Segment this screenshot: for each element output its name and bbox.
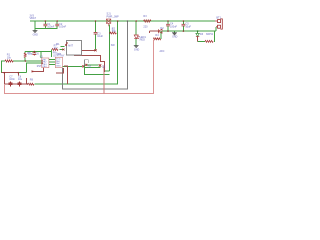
wire stub to ground left xyxy=(35,21,57,29)
wire cap C5 leads xyxy=(182,21,184,24)
pin marks IC left xyxy=(42,60,44,61)
ground GND3 xyxy=(172,33,177,35)
svg-text:GND: GND xyxy=(134,48,140,51)
module M1 gray box xyxy=(66,40,81,55)
wire down to IC top xyxy=(40,52,42,59)
svg-text:RST: RST xyxy=(37,66,42,68)
wire left corner to R1 xyxy=(2,61,5,73)
pin X to red net xyxy=(94,49,96,51)
transistor Q2 xyxy=(99,64,101,66)
svg-text:GND: GND xyxy=(172,36,178,39)
wire y61 to IC xyxy=(13,60,42,62)
wire q links xyxy=(87,64,99,66)
junction I xyxy=(34,51,36,53)
junction F gray xyxy=(127,20,129,22)
resistor R5 xyxy=(205,40,213,42)
capacitor C4 xyxy=(166,24,170,26)
transistor Q1 xyxy=(82,65,84,67)
capacitor C1 xyxy=(43,24,47,26)
svg-text:RED: RED xyxy=(140,39,145,42)
svg-text:10uF: 10uF xyxy=(185,25,191,28)
svg-text:BAT54: BAT54 xyxy=(206,33,214,36)
svg-text:SW: SW xyxy=(111,44,116,47)
wire R6 leads xyxy=(24,57,26,61)
svg-text:10k: 10k xyxy=(7,56,12,59)
wire cap C2 leads xyxy=(56,21,58,24)
svg-text:C6: C6 xyxy=(36,52,40,55)
wire green y72.7 part xyxy=(18,72,26,74)
svg-text:ANT: ANT xyxy=(68,45,73,48)
wire ground stub x174.5 xyxy=(174,31,176,32)
capacitor C6 below junction xyxy=(32,53,36,55)
wire battery branch xyxy=(197,31,199,33)
diode D2 xyxy=(150,31,159,33)
svg-text:100nF: 100nF xyxy=(170,25,178,28)
svg-text:ADC: ADC xyxy=(160,50,165,53)
junction D xyxy=(109,32,111,34)
wire down to LED xyxy=(135,21,137,35)
wire vertical x117.7 long + bottom y84 xyxy=(34,21,117,84)
pin X below IC1 xyxy=(32,71,34,73)
svg-text:R3: R3 xyxy=(143,15,147,18)
svg-text:D3: D3 xyxy=(200,33,204,36)
wire gray long return xyxy=(63,21,128,89)
ground GND1 xyxy=(33,31,38,33)
svg-text:Q1: Q1 xyxy=(88,66,92,69)
junction E xyxy=(117,20,119,22)
wire stubs between boxes xyxy=(49,59,55,61)
resistor R6 vertical xyxy=(24,53,26,58)
transistor Q1 outline xyxy=(85,60,89,65)
svg-text:100nF: 100nF xyxy=(47,26,55,29)
capacitor C2 xyxy=(55,24,59,26)
svg-text:GND: GND xyxy=(33,33,39,36)
wire green to Q1 xyxy=(63,65,83,67)
wire cap C4 leads xyxy=(167,21,169,24)
junction J red bottom xyxy=(18,72,20,74)
svg-text:Data: Data xyxy=(56,53,62,56)
wire cap C1 leads xyxy=(44,21,46,24)
wire vertical x95.5 xyxy=(95,21,97,32)
junction H xyxy=(25,60,27,62)
svg-text:22p: 22p xyxy=(28,52,33,55)
svg-text:Q2: Q2 xyxy=(102,66,106,69)
wire battery line y31 xyxy=(162,30,216,32)
wire from R4 up xyxy=(160,31,162,39)
LED LED1 xyxy=(134,35,140,39)
svg-text:10uF: 10uF xyxy=(97,35,103,38)
wire module pin stub xyxy=(60,45,64,47)
junction A xyxy=(45,20,47,22)
svg-text:10u: 10u xyxy=(18,78,23,81)
wire y63.2 to IC xyxy=(27,63,43,72)
junction B xyxy=(56,20,58,22)
diode D3 battery branch xyxy=(197,30,199,32)
capacitor C3 xyxy=(94,32,98,34)
junction G xyxy=(135,20,137,22)
wire y51.5 xyxy=(25,51,51,53)
junction C xyxy=(95,20,97,22)
svg-text:VBAT: VBAT xyxy=(30,17,37,20)
svg-text:220: 220 xyxy=(143,26,148,29)
ground GND2 xyxy=(134,46,139,48)
svg-text:R8: R8 xyxy=(30,79,34,82)
wire main rail xyxy=(2,21,216,84)
svg-text:GND: GND xyxy=(56,65,61,67)
svg-text:D2: D2 xyxy=(160,27,164,30)
wire vertical from jumper x109 xyxy=(108,25,110,71)
svg-text:M1: M1 xyxy=(56,43,60,46)
pin module left xyxy=(65,44,67,46)
svg-text:PWR_JMP: PWR_JMP xyxy=(107,15,120,18)
svg-text:100n: 100n xyxy=(9,78,15,81)
wire dark red nets xyxy=(2,50,105,84)
wire R7 link xyxy=(50,50,52,52)
svg-text:R4: R4 xyxy=(155,34,159,37)
svg-text:100nF: 100nF xyxy=(59,26,67,29)
wire pink long return xyxy=(5,40,154,94)
capacitor C5 xyxy=(182,24,186,26)
